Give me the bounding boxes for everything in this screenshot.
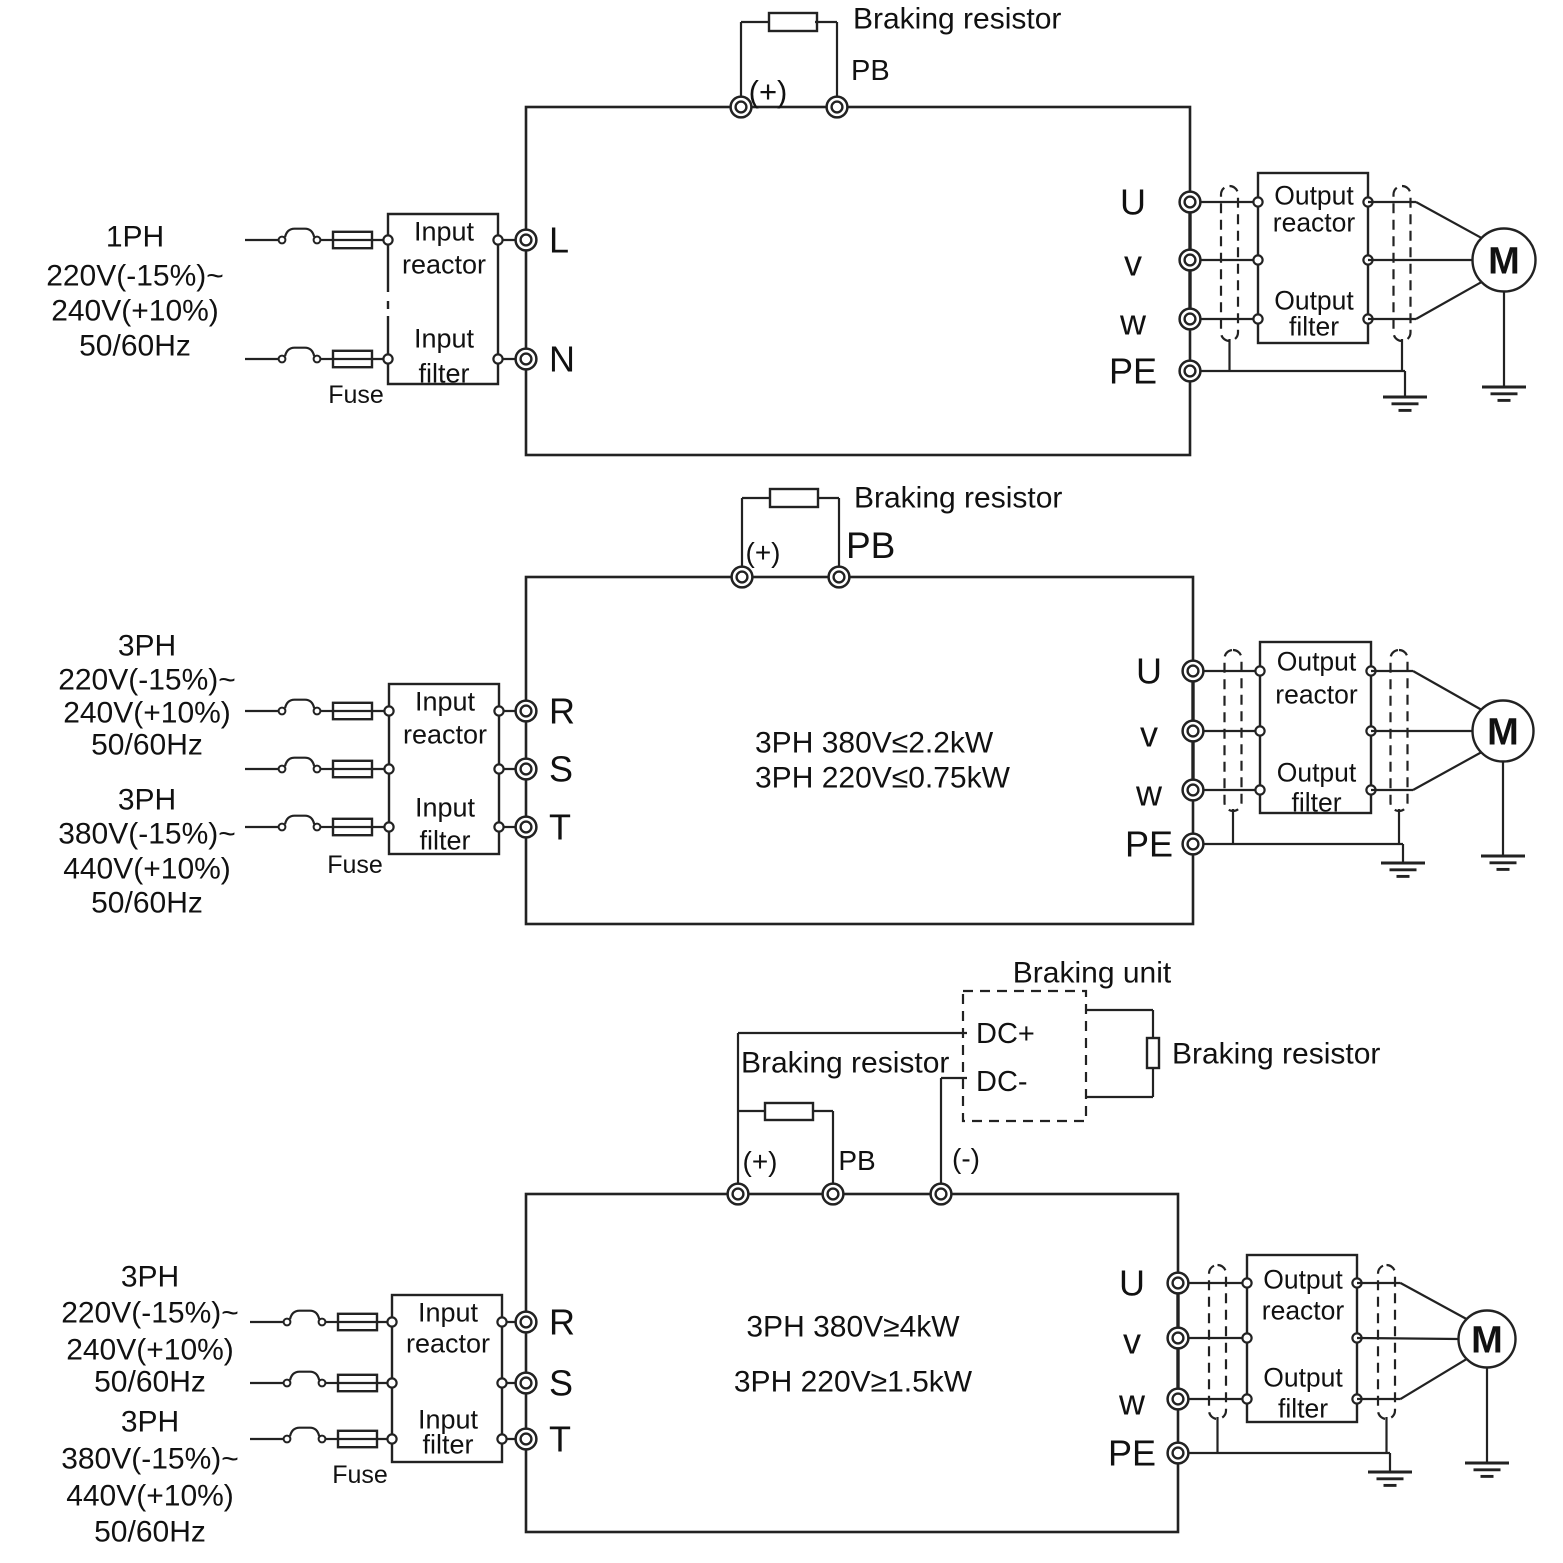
svg-text:50/60Hz: 50/60Hz [79, 330, 191, 363]
svg-text:Input: Input [414, 324, 475, 354]
svg-text:v: v [1140, 714, 1158, 755]
svg-text:S: S [549, 1363, 573, 1404]
svg-text:3PH 380V≤2.2kW: 3PH 380V≤2.2kW [755, 727, 994, 760]
svg-text:reactor: reactor [1275, 679, 1358, 709]
svg-text:240V(+10%): 240V(+10%) [63, 697, 231, 730]
svg-text:T: T [549, 807, 571, 848]
svg-text:Braking resistor: Braking resistor [853, 3, 1061, 36]
svg-text:220V(-15%)~: 220V(-15%)~ [61, 1297, 239, 1330]
svg-text:Braking unit: Braking unit [1013, 957, 1172, 990]
svg-text:U: U [1136, 651, 1162, 692]
svg-text:filter: filter [1291, 787, 1341, 817]
svg-text:Input: Input [415, 687, 476, 717]
svg-text:w: w [1119, 302, 1147, 343]
svg-text:Output: Output [1277, 646, 1357, 676]
svg-text:Fuse: Fuse [332, 1461, 388, 1489]
svg-text:filter: filter [1289, 311, 1339, 341]
svg-text:Fuse: Fuse [327, 851, 383, 879]
svg-text:v: v [1124, 243, 1142, 284]
svg-text:Input: Input [415, 793, 476, 823]
svg-text:3PH: 3PH [121, 1406, 179, 1439]
svg-text:U: U [1120, 182, 1146, 223]
svg-text:240V(+10%): 240V(+10%) [66, 1334, 234, 1367]
svg-text:Braking resistor: Braking resistor [1172, 1038, 1380, 1071]
svg-text:N: N [549, 339, 575, 380]
svg-text:L: L [549, 220, 569, 261]
svg-text:R: R [549, 1302, 575, 1343]
svg-text:reactor: reactor [403, 720, 487, 750]
svg-text:(+): (+) [743, 1146, 778, 1177]
svg-text:reactor: reactor [1262, 1295, 1345, 1325]
svg-text:Input: Input [418, 1298, 479, 1328]
svg-text:M: M [1488, 240, 1520, 282]
svg-text:440V(+10%): 440V(+10%) [66, 1480, 234, 1513]
svg-text:3PH: 3PH [121, 1261, 179, 1294]
svg-text:M: M [1487, 711, 1519, 753]
svg-text:380V(-15%)~: 380V(-15%)~ [61, 1443, 239, 1476]
svg-text:220V(-15%)~: 220V(-15%)~ [58, 664, 236, 697]
svg-text:Output: Output [1263, 1362, 1343, 1392]
svg-text:PB: PB [851, 55, 890, 87]
svg-text:S: S [549, 749, 573, 790]
svg-text:PB: PB [846, 525, 895, 566]
svg-text:PE: PE [1108, 1433, 1156, 1474]
svg-text:filter: filter [422, 1430, 473, 1460]
svg-text:1PH: 1PH [106, 221, 164, 254]
svg-text:Output: Output [1274, 180, 1354, 210]
svg-text:(+): (+) [749, 74, 788, 109]
svg-text:50/60Hz: 50/60Hz [91, 729, 203, 762]
svg-text:w: w [1135, 773, 1163, 814]
svg-text:3PH 380V≥4kW: 3PH 380V≥4kW [746, 1311, 960, 1344]
svg-text:(+): (+) [746, 537, 781, 568]
svg-text:3PH 220V≥1.5kW: 3PH 220V≥1.5kW [734, 1366, 973, 1399]
svg-text:filter: filter [1278, 1393, 1328, 1423]
svg-text:240V(+10%): 240V(+10%) [51, 295, 219, 328]
svg-text:T: T [549, 1419, 571, 1460]
svg-text:50/60Hz: 50/60Hz [94, 1366, 206, 1399]
svg-text:reactor: reactor [1273, 207, 1356, 237]
svg-text:440V(+10%): 440V(+10%) [63, 853, 231, 886]
svg-text:50/60Hz: 50/60Hz [91, 887, 203, 920]
svg-text:reactor: reactor [402, 250, 486, 280]
svg-text:PE: PE [1125, 824, 1173, 865]
svg-text:filter: filter [419, 826, 470, 856]
svg-text:DC-: DC- [976, 1066, 1028, 1098]
svg-text:50/60Hz: 50/60Hz [94, 1516, 206, 1549]
svg-text:Braking resistor: Braking resistor [741, 1047, 949, 1080]
svg-text:(-): (-) [952, 1143, 980, 1174]
svg-text:R: R [549, 691, 575, 732]
svg-text:Fuse: Fuse [328, 381, 384, 409]
svg-text:Output: Output [1263, 1264, 1343, 1294]
svg-text:220V(-15%)~: 220V(-15%)~ [46, 260, 224, 293]
svg-text:3PH: 3PH [118, 784, 176, 817]
svg-text:Output: Output [1277, 757, 1357, 787]
svg-text:U: U [1119, 1263, 1145, 1304]
svg-text:v: v [1123, 1321, 1141, 1362]
svg-text:DC+: DC+ [976, 1018, 1035, 1050]
svg-text:PE: PE [1109, 351, 1157, 392]
svg-text:380V(-15%)~: 380V(-15%)~ [58, 818, 236, 851]
svg-text:reactor: reactor [406, 1329, 490, 1359]
svg-text:Input: Input [414, 217, 475, 247]
svg-text:filter: filter [418, 359, 469, 389]
svg-text:w: w [1118, 1382, 1146, 1423]
svg-text:3PH 220V≤0.75kW: 3PH 220V≤0.75kW [755, 762, 1011, 795]
svg-text:M: M [1471, 1319, 1503, 1361]
svg-text:Braking resistor: Braking resistor [854, 482, 1062, 515]
svg-text:PB: PB [838, 1145, 875, 1176]
svg-text:3PH: 3PH [118, 630, 176, 663]
